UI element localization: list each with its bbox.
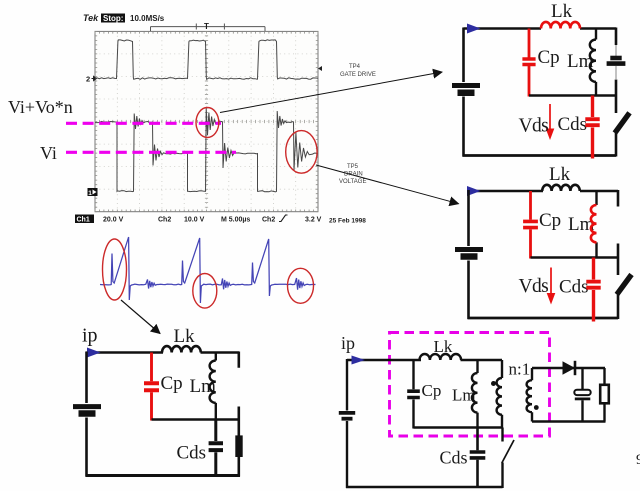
circuit4 node rail wire [414, 426, 503, 428]
circuit4 transformer primary winding [501, 360, 503, 429]
svg-text:20.0 V: 20.0 V [103, 217, 124, 224]
node level line Vi (magenta dashed) [66, 151, 236, 154]
circuit1 capacitor Cds (red) [591, 96, 594, 159]
scope trigger position bracket [151, 22, 266, 31]
svg-text:Vi: Vi [40, 143, 57, 163]
circuit4 dashed highlight box magenta [390, 333, 550, 437]
circuit4 inductor Lm (black) [476, 360, 478, 429]
svg-text:Vds: Vds [519, 276, 549, 297]
svg-text:25 Feb 1998: 25 Feb 1998 [329, 218, 366, 225]
highlight ellipse on current spike 1 [103, 239, 127, 300]
circuit1 Vds arrow (red) [549, 104, 551, 131]
svg-text:Cp: Cp [538, 47, 560, 68]
circuit2 capacitor Cds (red) [592, 258, 595, 322]
svg-text:DRAIN: DRAIN [344, 172, 363, 178]
circuit4 capacitor Cds (black) [476, 428, 479, 489]
circuit2 battery Vin [455, 247, 483, 252]
svg-text:VOLTAGE: VOLTAGE [339, 179, 366, 185]
circuit1 inductor Lm [595, 28, 597, 97]
channel 2 marker [86, 75, 97, 84]
scope ch2 gate drive trace [95, 40, 318, 80]
svg-text:Vds: Vds [519, 116, 549, 137]
circuit4 inductor Lk (black) [420, 354, 462, 360]
circuit1 bottom wire [463, 154, 617, 157]
circuit1 node rail wire [529, 94, 617, 97]
circuit4 capacitor Cp (black) [412, 360, 414, 429]
circuit4 input source bars [339, 411, 355, 415]
circuit2 open output branch [617, 190, 620, 275]
svg-text:GATE DRIVE: GATE DRIVE [340, 72, 376, 78]
svg-text:1: 1 [88, 190, 92, 197]
circuit2 current arrow (blue) [467, 186, 481, 196]
label TP5 DRAIN VOLTAGE [339, 164, 366, 185]
circuit4 diode D [563, 361, 576, 374]
circuit4 top wire [347, 359, 502, 361]
svg-text:Stop:: Stop: [103, 14, 123, 23]
svg-text:2: 2 [86, 75, 90, 84]
svg-text:M 5.00µs: M 5.00µs [221, 217, 250, 224]
highlight ellipse A on scope ringing [196, 108, 219, 138]
svg-text:3.2 V: 3.2 V [305, 217, 322, 224]
circuit4 secondary top wire [532, 367, 605, 369]
arrow from current spike to circuit 3 [121, 300, 160, 334]
svg-text:Lk: Lk [174, 326, 196, 347]
svg-text:Cp: Cp [539, 210, 561, 231]
svg-text:n:1: n:1 [509, 360, 531, 379]
circuit2 top wire [469, 190, 619, 193]
svg-text:Ch1: Ch1 [77, 217, 90, 224]
svg-text:Cds: Cds [559, 277, 589, 298]
svg-text:Vi+Vo*n: Vi+Vo*n [8, 97, 73, 117]
svg-text:ip: ip [341, 333, 355, 353]
svg-text:T: T [204, 22, 209, 31]
circuit3 inductor Lm (black) [215, 353, 217, 420]
circuit3 switch closed bar [235, 435, 242, 457]
channel 1 marker [88, 188, 98, 197]
circuit3 capacitor Cds (black) [214, 420, 217, 477]
circuit3 inductor Lk (black) [162, 346, 201, 352]
ch2 right edge marker [318, 66, 322, 71]
circuit3 current arrow (blue) [87, 348, 101, 358]
circuit4 transformer primary dot [491, 381, 496, 386]
svg-text:Cds: Cds [177, 443, 207, 464]
circuit2 node rail wire [531, 256, 620, 259]
circuit2 Vds arrow (red) [550, 268, 552, 295]
oscilloscope screenshot panel [95, 31, 318, 211]
scope ch1 drain voltage trace [95, 108, 318, 192]
circuit2 inductor Lm (red) [595, 190, 597, 259]
circuit3 open output branch [238, 352, 241, 437]
circuit4 output capacitor [581, 368, 583, 422]
arrow from ellipse B to circuit 2 [316, 165, 459, 204]
svg-text:Lk: Lk [549, 164, 571, 185]
circuit2 capacitor Cp (red) [529, 191, 532, 259]
circuit4 secondary bottom wire [532, 420, 606, 422]
circuit3 left wire [85, 352, 88, 477]
circuit1 switch open [615, 113, 630, 133]
circuit1 right branch wire [615, 28, 618, 114]
node level line Vi+Vo*n (magenta dashed) [66, 122, 221, 125]
svg-text:Cds: Cds [440, 448, 468, 468]
svg-text:9: 9 [636, 452, 640, 468]
svg-text:Lk: Lk [551, 1, 573, 22]
circuit1 output source n*Vo bars [610, 56, 621, 61]
circuit4 transformer secondary winding [531, 368, 533, 422]
label TP4 GATE DRIVE [340, 64, 376, 78]
circuit2 bottom wire [468, 317, 619, 320]
svg-text:TP5: TP5 [347, 164, 359, 170]
svg-text:Cp: Cp [161, 373, 183, 394]
highlight ellipse on current undershoot 2 [193, 274, 217, 309]
circuit4 bottom wire [346, 486, 503, 489]
circuit1 battery Vin [452, 83, 480, 88]
circuit3 node rail wire [152, 418, 240, 421]
circuit3 capacitor Cp (red) [150, 353, 153, 421]
svg-text:ip: ip [82, 325, 98, 347]
svg-text:Ch2: Ch2 [158, 217, 171, 224]
circuit1 top wire with node A [464, 27, 617, 30]
circuit4 transformer secondary dot [534, 405, 539, 410]
circuit1 capacitor Cp (red) [528, 29, 531, 97]
circuit2 left wire [467, 190, 470, 319]
circuit4 current arrow (blue) [352, 356, 366, 365]
svg-text:Cp: Cp [422, 381, 442, 400]
circuit3 battery Vin [73, 404, 101, 409]
circuit2 inductor Lk (black) [542, 185, 580, 191]
svg-text:10.0 V: 10.0 V [184, 217, 205, 224]
circuit2 switch open [617, 275, 632, 295]
svg-text:Cds: Cds [558, 114, 588, 135]
blue primary current waveform ip [100, 237, 316, 303]
circuit1 inductor Lk (red) [541, 22, 580, 29]
scope header: Tek Stop 10.0MS/s [83, 13, 165, 23]
circuit4 switch open thin [501, 428, 503, 442]
circuit1 left wire [462, 28, 465, 157]
circuit3 top wire [87, 351, 240, 354]
circuit1 current arrow (blue) [467, 24, 481, 34]
highlight ellipse on current ringing 3 [288, 268, 314, 303]
svg-text:10.0MS/s: 10.0MS/s [130, 14, 165, 23]
svg-text:Tek: Tek [83, 13, 99, 23]
svg-text:Ch2: Ch2 [262, 217, 275, 224]
svg-text:TP4: TP4 [349, 64, 361, 70]
circuit4 load resistor [603, 368, 605, 422]
circuit4 left wire [346, 359, 348, 488]
scope bottom readout [75, 215, 366, 225]
circuit3 bottom wire [86, 474, 241, 477]
arrow from ellipse A to circuit 1 [220, 72, 442, 113]
highlight ellipse B on scope ringing [286, 131, 317, 174]
